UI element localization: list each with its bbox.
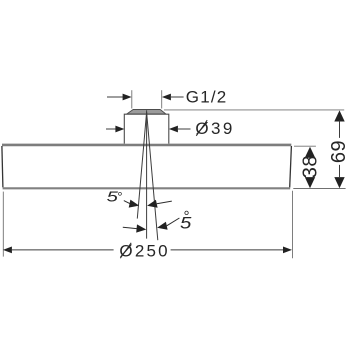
center line [146, 110, 148, 238]
dimension G1/2 extension line left [131, 90, 133, 108]
dimension 69 extension line top [164, 109, 344, 111]
svg-text:69: 69 [328, 140, 350, 163]
dimension 38 extension line top [294, 145, 316, 147]
shower plate body [2, 145, 292, 188]
dimension 69 down arrow [334, 177, 344, 188]
dimension D39 left tail [106, 128, 117, 130]
plate right edge [290, 146, 292, 187]
dimension 38 up arrow [305, 147, 315, 158]
svg-text:G1/2: G1/2 [186, 87, 228, 106]
dimension 38 down arrow [305, 177, 315, 188]
dimension G1/2 left tail [107, 96, 124, 98]
plate left edge [2, 146, 3, 187]
right spray line 5deg [147, 112, 158, 240]
dimension 69 extension line bottom [293, 188, 345, 190]
angle upper-right tail [157, 201, 172, 204]
dimension D250 extension line right [292, 191, 294, 258]
dimension D39 right arrow [169, 126, 178, 133]
dimension 69 line lower segment [339, 165, 341, 178]
svg-text:°: ° [117, 189, 122, 204]
dimension D250 left arrow [3, 247, 12, 254]
dimension D250 extension line left [2, 192, 4, 257]
dimension D250 right arrow [283, 247, 292, 254]
dimension 69 up arrow [334, 110, 344, 121]
dimension D250 line right segment [171, 249, 284, 251]
dimension D39 right tail [177, 128, 191, 130]
dimension G1/2 left arrow [123, 94, 132, 101]
angle upper-right arrow [147, 200, 158, 208]
dimension D39 left arrow [115, 126, 124, 133]
connector cap (G1/2 thread) [127, 110, 166, 114]
svg-text:38: 38 [299, 155, 321, 178]
angle leader left [124, 201, 131, 204]
dimension G1/2 right tail [170, 96, 184, 98]
angle lower-right arrow [157, 222, 168, 230]
dimension G1/2 extension line right [161, 90, 163, 108]
left spray line 5deg [137, 112, 146, 218]
label D250 slash accent [120, 243, 131, 258]
connector body [124, 114, 169, 143]
dimension G1/2 right arrow [162, 94, 171, 101]
svg-text:°: ° [183, 208, 189, 225]
angle lower-left tail [123, 227, 138, 229]
dimension 69 line upper segment [339, 121, 341, 138]
label D39 slash accent [196, 120, 207, 136]
angle lower-left arrow [136, 224, 146, 232]
plate top surface line [2, 144, 291, 147]
svg-text:Ø250: Ø250 [119, 241, 169, 260]
angle upper-left arrow [129, 200, 140, 208]
angle leader right [167, 218, 180, 226]
dimension D250 line left segment [12, 249, 114, 251]
plate bottom surface line [3, 187, 291, 189]
